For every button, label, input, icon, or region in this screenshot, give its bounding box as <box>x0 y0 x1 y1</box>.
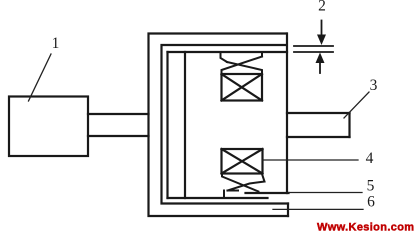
coil upper diagonal b <box>222 74 263 101</box>
coil lower (crossed box, part 4) <box>222 149 263 174</box>
down arrow head <box>317 35 326 46</box>
input shaft lower line <box>88 135 149 137</box>
output shaft lower line <box>287 136 350 138</box>
gap upper extension line <box>294 45 333 47</box>
armature bottom line <box>168 197 268 199</box>
yoke right wall <box>286 34 288 194</box>
leader line 6 <box>273 208 363 210</box>
coil upper (crossed box) <box>222 74 263 101</box>
leader line 3 <box>344 92 369 118</box>
up arrow head <box>316 53 325 64</box>
yoke outer contour <box>149 34 289 217</box>
coil upper diagonal a <box>222 74 263 101</box>
box 1 (prime mover) <box>9 97 88 157</box>
output shaft end cap <box>348 113 350 137</box>
armature plate left edge <box>166 52 168 198</box>
lower spring right diagonal <box>222 174 259 193</box>
upper spring diagonal a <box>222 57 263 75</box>
lower spring tick <box>228 190 239 192</box>
gap lower extension line <box>294 51 333 53</box>
svg-text:6: 6 <box>367 194 375 211</box>
svg-text:4: 4 <box>366 150 374 167</box>
svg-text:1: 1 <box>52 35 60 52</box>
leader line 5 <box>289 192 363 194</box>
lower spring zigzag <box>228 174 265 191</box>
up arrow tail <box>319 61 321 73</box>
armature plate right edge <box>184 52 186 198</box>
armature top line <box>168 51 288 53</box>
upper spring right hook <box>261 53 263 57</box>
coil lower diagonal a <box>222 149 263 174</box>
leader line 4 <box>263 159 359 161</box>
yoke bottom arm end cap <box>287 204 289 217</box>
yoke inner contour <box>162 45 289 204</box>
leader line 1 <box>29 54 52 101</box>
lower mounting bar (part 5) <box>246 192 289 194</box>
svg-text:2: 2 <box>318 0 326 15</box>
svg-text:3: 3 <box>370 77 378 94</box>
down arrow tail <box>321 21 323 37</box>
lower spring left hook <box>223 191 225 198</box>
input shaft upper line <box>88 113 149 115</box>
air gap dimension (part 2) <box>294 21 333 74</box>
svg-text:5: 5 <box>367 178 375 195</box>
coil lower diagonal b <box>222 149 263 174</box>
upper spring diagonal b <box>227 62 262 74</box>
svg-text:Www.Kesion.com: Www.Kesion.com <box>317 222 414 234</box>
output shaft upper line (part 3) <box>287 112 350 114</box>
upper spring left hook <box>221 53 228 62</box>
